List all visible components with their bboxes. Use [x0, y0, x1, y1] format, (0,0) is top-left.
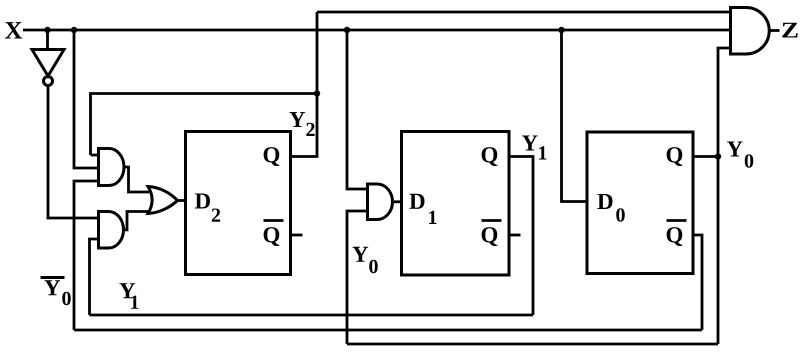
wire notY0 bottom horizontal	[74, 329, 702, 332]
label D0 letter	[597, 194, 612, 209]
label Q of D0	[667, 147, 683, 166]
label notY0 letter bottom left	[44, 280, 60, 295]
junction dot X-D0	[558, 27, 564, 33]
label Qbar of D2 letter	[264, 227, 280, 246]
label Z output	[782, 23, 797, 38]
label Y0 letter bottom middle	[352, 247, 368, 262]
label Qbar of D2 overbar	[264, 219, 284, 222]
wire Y1 bottom horizontal	[90, 314, 534, 317]
label X input	[5, 22, 22, 38]
label D1 subscript	[429, 211, 436, 224]
label Y0 subscript right of D0	[745, 154, 753, 167]
label Y2 letter	[289, 112, 305, 127]
label Q of D2	[264, 147, 280, 166]
wire inverter output to AND2	[48, 86, 99, 218]
wire D1 Q output Y1	[509, 157, 533, 316]
wire X drop to AND3	[347, 30, 368, 189]
D flip-flop U_D1 box	[402, 132, 510, 276]
wire Y0 riser into AND3	[347, 211, 368, 344]
label Y1 letter right of D1	[522, 135, 538, 150]
wire Y0 drop to bottom	[717, 157, 720, 345]
label notY0 subscript bottom left	[62, 292, 70, 305]
wire Y1 riser into AND2	[90, 239, 99, 315]
label Qbar of D1 overbar	[482, 219, 502, 222]
wire Y2 into AND1	[91, 154, 99, 157]
label D2 subscript	[212, 208, 220, 221]
wire D1 Qbar stub	[509, 234, 521, 237]
OR gate U2	[148, 187, 178, 214]
wire D0 Qbar drop	[693, 235, 702, 330]
junction dot Y2 branch	[314, 90, 320, 96]
AND gate A2 (notX·Y1)	[99, 212, 124, 249]
label Y1 subscript bottom left	[131, 296, 138, 309]
label notY0 overbar bottom left	[41, 276, 65, 279]
wire OR output to D2	[178, 199, 186, 202]
wire X drop to AND1	[74, 30, 99, 168]
AND gate A4 (Z output)	[731, 8, 770, 55]
label D1 letter	[409, 194, 424, 209]
wire D2 Q output to riser	[291, 12, 318, 157]
wire AND2 output to OR	[124, 212, 150, 230]
wire inverter input stub	[46, 30, 49, 50]
wire Y0 bottom horizontal	[347, 343, 718, 346]
inverter NOT gate triangle	[32, 50, 64, 77]
label Y1 letter bottom left	[119, 283, 135, 298]
wire D0 Q output Y0	[693, 155, 718, 158]
junction dot X-inverter	[44, 27, 50, 33]
wire X drop to D0	[562, 30, 588, 202]
junction dot X-AND3	[344, 27, 350, 33]
wire Y0 riser to Z gate	[718, 48, 731, 157]
wire top Y2-to-Z horizontal	[317, 11, 731, 14]
wire D2 Qbar stub	[291, 234, 303, 237]
inverter bubble	[44, 77, 53, 86]
AND gate A3 (X·Y0)	[368, 184, 393, 220]
wire X main horizontal	[23, 29, 731, 32]
label Y2 subscript	[306, 123, 314, 136]
label Q of D1	[482, 147, 498, 166]
wire Z output stub	[769, 29, 779, 32]
label Y1 subscript right of D1	[539, 146, 546, 159]
junction dot Y0 node	[715, 153, 721, 159]
AND gate A1 (X·Y2·notY0)	[99, 149, 125, 186]
label Y0 subscript bottom middle	[369, 260, 377, 273]
wire Y2 branch horizontal	[91, 94, 318, 156]
label D0 subscript	[616, 208, 624, 221]
label Y0 letter right of D0	[727, 141, 743, 156]
label Qbar of D0 letter	[667, 227, 683, 246]
wire AND3 output to D1	[393, 200, 402, 203]
D flip-flop U_D0 box	[587, 132, 693, 274]
label Qbar of D1 letter	[482, 227, 498, 246]
D flip-flop U_D2 box	[186, 132, 291, 275]
label D2 letter	[195, 193, 210, 208]
label Qbar of D0 overbar	[667, 219, 687, 222]
wire AND1 output to OR	[124, 167, 149, 192]
wire notY0 vertical into AND1	[74, 181, 99, 330]
junction dot X-AND1	[71, 27, 77, 33]
